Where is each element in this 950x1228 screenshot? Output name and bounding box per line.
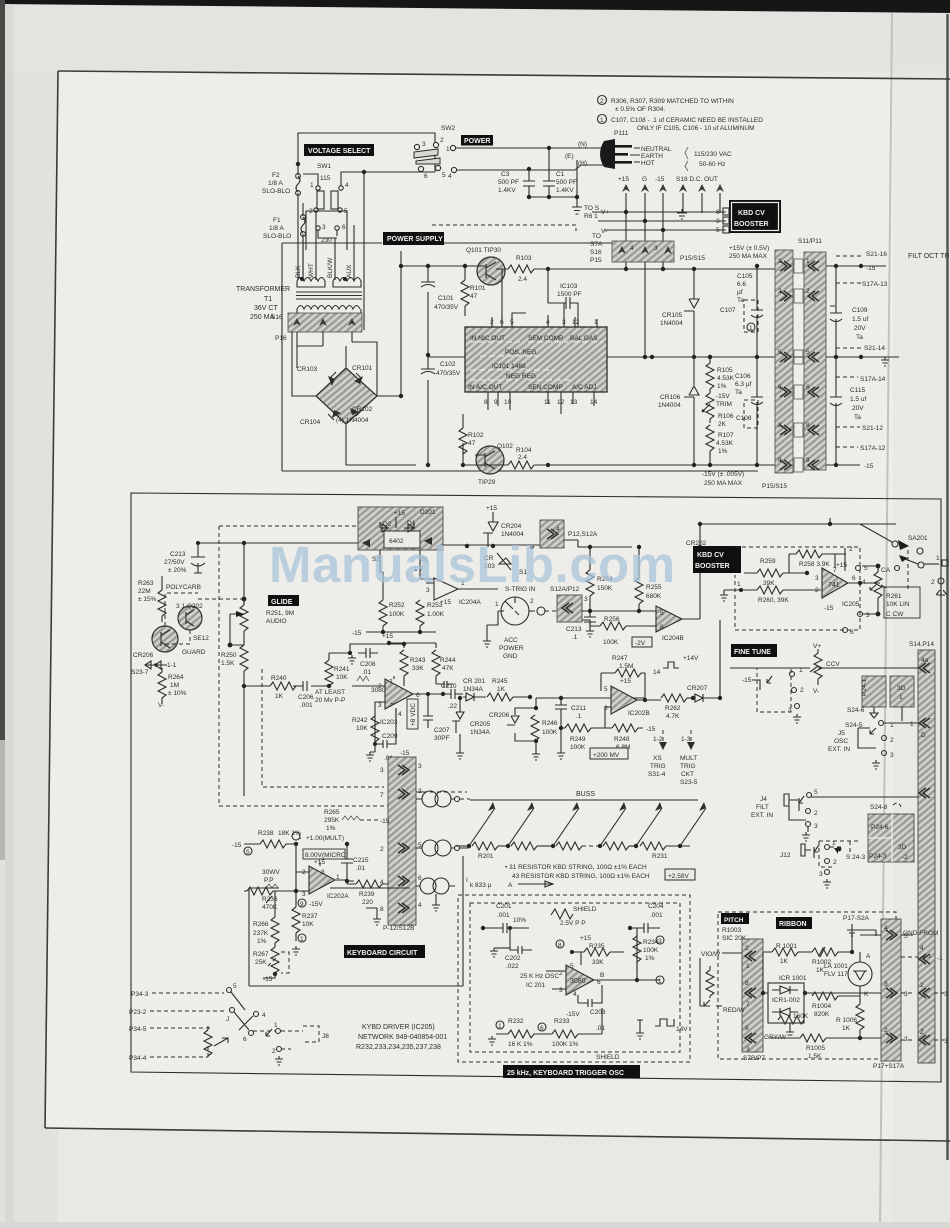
dashed lead-in bbox=[432, 225, 576, 231]
svg-text:3: 3 bbox=[559, 987, 563, 994]
wire cap commons to earth bbox=[529, 160, 577, 207]
svg-text:1.00K: 1.00K bbox=[427, 611, 445, 618]
svg-text:SEN COMP: SEN COMP bbox=[528, 384, 563, 391]
svg-text:HOT: HOT bbox=[641, 160, 655, 167]
svg-text:R251, 9M: R251, 9M bbox=[266, 610, 294, 617]
svg-text:TO S: TO S bbox=[584, 205, 600, 212]
svg-text:C101: C101 bbox=[438, 295, 454, 302]
svg-text:SEM COMP: SEM COMP bbox=[528, 335, 563, 342]
bottom band bbox=[0, 1222, 950, 1228]
svg-text:3: 3 bbox=[378, 702, 382, 709]
key contact arrows bbox=[469, 808, 706, 846]
svg-text:9: 9 bbox=[778, 457, 782, 464]
svg-text:EARTH: EARTH bbox=[641, 153, 663, 160]
svg-text:XS: XS bbox=[653, 755, 662, 762]
svg-text:6: 6 bbox=[243, 1036, 247, 1043]
svg-text:25 K Hz OSC: 25 K Hz OSC bbox=[520, 973, 559, 980]
resistor R107 4.53K 1% bbox=[706, 425, 714, 451]
svg-text:S18 D.C. OUT: S18 D.C. OUT bbox=[676, 176, 718, 183]
svg-text:R 1001: R 1001 bbox=[776, 943, 797, 950]
svg-text:R106: R106 bbox=[718, 413, 734, 420]
svg-text:SHIELD: SHIELD bbox=[573, 906, 597, 913]
capacitor C210 .22 bbox=[443, 689, 463, 699]
svg-text:4.53K: 4.53K bbox=[716, 440, 734, 447]
svg-text:1%: 1% bbox=[717, 383, 727, 390]
label VOLTAGE SELECT bbox=[304, 144, 374, 156]
svg-text:± 10%: ± 10% bbox=[168, 690, 187, 697]
svg-text:R263: R263 bbox=[138, 580, 154, 587]
resistor R1005 1.5K bbox=[800, 1034, 826, 1042]
resistor R255 680K bbox=[635, 578, 643, 604]
label 8.00V/MICRO bbox=[303, 849, 345, 859]
svg-text:BLK/W: BLK/W bbox=[327, 257, 334, 278]
svg-text:1K: 1K bbox=[497, 686, 506, 693]
svg-text:3: 3 bbox=[418, 763, 422, 770]
resistor R248 6.8M bbox=[612, 724, 638, 732]
svg-text:C1: C1 bbox=[556, 171, 565, 178]
svg-text:1%: 1% bbox=[645, 955, 655, 962]
svg-text:TRIG: TRIG bbox=[680, 763, 696, 770]
svg-text:1.5M: 1.5M bbox=[619, 663, 633, 670]
triangle wave icon bbox=[551, 909, 573, 919]
svg-text:8: 8 bbox=[806, 422, 810, 429]
resistor R250 1.5K bbox=[240, 645, 248, 671]
svg-text:6: 6 bbox=[716, 209, 720, 216]
svg-text:.001: .001 bbox=[300, 702, 313, 709]
svg-text:S17A-13: S17A-13 bbox=[862, 281, 888, 288]
transistor Q102 bbox=[476, 446, 504, 474]
svg-text:.001: .001 bbox=[650, 912, 663, 919]
svg-text:5: 5 bbox=[716, 227, 720, 234]
ground KBD area bbox=[677, 209, 687, 219]
sheet frame bottom line bbox=[45, 1128, 950, 1141]
strip chevrons row2 bbox=[780, 291, 791, 301]
svg-text:-1: -1 bbox=[937, 955, 943, 962]
svg-text:CR204: CR204 bbox=[501, 523, 522, 530]
svg-text:CR202: CR202 bbox=[686, 540, 707, 547]
resistor R253 1.00K bbox=[416, 600, 424, 626]
svg-text:2.4: 2.4 bbox=[518, 276, 527, 283]
svg-text:Ta: Ta bbox=[854, 414, 861, 421]
svg-text:1: 1 bbox=[910, 721, 914, 728]
svg-text:-15: -15 bbox=[352, 630, 362, 637]
svg-text:F2: F2 bbox=[272, 172, 280, 179]
svg-text:SW2: SW2 bbox=[441, 125, 455, 132]
svg-text:CR206: CR206 bbox=[489, 712, 510, 719]
svg-text:TRIG: TRIG bbox=[650, 763, 666, 770]
svg-text:(4) 1N4004: (4) 1N4004 bbox=[336, 417, 369, 424]
svg-text:P34-5: P34-5 bbox=[129, 1026, 147, 1033]
svg-text:3: 3 bbox=[904, 991, 908, 998]
svg-text:R249: R249 bbox=[570, 736, 586, 743]
booster pins bbox=[723, 208, 729, 215]
resistor R237 10K bbox=[292, 907, 300, 933]
svg-text:3: 3 bbox=[654, 245, 658, 252]
diode CR204 bbox=[483, 512, 498, 547]
op-amp 741 IC205 bbox=[822, 568, 848, 598]
svg-text:3: 3 bbox=[746, 1046, 750, 1053]
svg-text:5: 5 bbox=[604, 686, 608, 693]
svg-text:VOLTAGE SELECT: VOLTAGE SELECT bbox=[308, 148, 371, 155]
connector strip top horizontal bbox=[612, 241, 674, 262]
svg-text:47: 47 bbox=[468, 440, 476, 447]
svg-text:C106: C106 bbox=[735, 373, 751, 380]
wire primary left bbox=[303, 209, 316, 280]
svg-text:Z: Z bbox=[920, 1029, 924, 1036]
svg-text:ICR 1001: ICR 1001 bbox=[779, 975, 807, 982]
label RIBBON bbox=[776, 917, 812, 929]
svg-text:C109: C109 bbox=[852, 307, 868, 314]
svg-text:S: S bbox=[944, 1038, 949, 1045]
svg-text:4.7K: 4.7K bbox=[666, 713, 680, 720]
svg-text:-15: -15 bbox=[866, 265, 876, 272]
diode CR202 bbox=[695, 549, 705, 560]
svg-text:BOOSTER: BOOSTER bbox=[695, 563, 730, 570]
svg-text:14: 14 bbox=[653, 669, 661, 676]
svg-text:POS. REG: POS. REG bbox=[505, 349, 536, 356]
svg-text:ICR1-002: ICR1-002 bbox=[772, 997, 800, 1004]
svg-text:R265: R265 bbox=[324, 809, 340, 816]
connector strip S15 vertical 1 bbox=[775, 250, 793, 473]
svg-text:C209: C209 bbox=[382, 733, 398, 740]
strip S7B/P7 bbox=[742, 939, 763, 1052]
svg-text:3080: 3080 bbox=[570, 978, 586, 985]
wire grounds bbox=[460, 734, 536, 751]
svg-text:R201: R201 bbox=[478, 853, 494, 860]
svg-text:1: 1 bbox=[806, 258, 810, 265]
svg-text:3 1 Q202: 3 1 Q202 bbox=[176, 603, 203, 610]
svg-text:1N4004: 1N4004 bbox=[658, 402, 681, 409]
wire osc out bbox=[637, 934, 660, 980]
svg-text:GND FROM: GND FROM bbox=[903, 930, 938, 937]
svg-text:POWER: POWER bbox=[499, 645, 524, 652]
label +200 MV bbox=[590, 748, 628, 759]
diode CR206b bbox=[507, 708, 536, 741]
svg-text:FILT OCT TR: FILT OCT TR bbox=[908, 253, 950, 260]
switch SW2 bars bbox=[414, 149, 438, 158]
svg-text:30WV: 30WV bbox=[262, 869, 280, 876]
svg-text:BLK: BLK bbox=[295, 265, 302, 278]
resistor R103 2.4 bbox=[508, 265, 534, 273]
transistor GUARD bbox=[152, 626, 178, 652]
svg-text:4: 4 bbox=[262, 1012, 266, 1019]
svg-text:1%: 1% bbox=[326, 825, 336, 832]
svg-text:± 20%: ± 20% bbox=[168, 567, 187, 574]
svg-text:741: 741 bbox=[828, 582, 840, 589]
capacitor C211 .1 bbox=[555, 698, 567, 717]
svg-text:P15/S15: P15/S15 bbox=[680, 255, 705, 262]
svg-text:+8 VDC: +8 VDC bbox=[410, 703, 417, 726]
svg-text:+: + bbox=[390, 701, 394, 708]
svg-text:3: 3 bbox=[302, 891, 306, 898]
label +2.58V bbox=[665, 869, 695, 880]
svg-text:39K: 39K bbox=[763, 580, 775, 587]
svg-text:CR206: CR206 bbox=[133, 652, 154, 659]
resistor R266 237K bbox=[271, 917, 279, 943]
inner box keyboard circuit bbox=[249, 856, 463, 986]
svg-text:CKT: CKT bbox=[681, 771, 694, 778]
svg-text:K: K bbox=[864, 991, 869, 998]
svg-text:IC205: IC205 bbox=[842, 601, 860, 608]
capacitor C101 bbox=[421, 266, 435, 355]
svg-text:IC202A: IC202A bbox=[327, 893, 349, 900]
svg-text:6: 6 bbox=[778, 384, 782, 391]
svg-text:GLIDE: GLIDE bbox=[271, 599, 293, 606]
svg-text:4: 4 bbox=[556, 526, 560, 533]
node junction bbox=[296, 162, 300, 166]
svg-text:S21-12: S21-12 bbox=[862, 425, 883, 432]
svg-text:6: 6 bbox=[852, 575, 856, 582]
svg-text:.01: .01 bbox=[362, 669, 371, 676]
wire guard net dashes bbox=[165, 593, 242, 652]
keyboard jacks row1 bbox=[422, 791, 438, 807]
svg-text:FLV 117: FLV 117 bbox=[824, 971, 848, 978]
right page edge dark line bbox=[946, 14, 949, 1160]
svg-text:8: 8 bbox=[778, 422, 782, 429]
svg-text:6: 6 bbox=[342, 224, 346, 231]
label FINE TUNE bbox=[731, 644, 777, 657]
svg-text:9: 9 bbox=[300, 901, 304, 908]
svg-text:CR101: CR101 bbox=[352, 365, 373, 372]
resistor R242 10K bbox=[371, 716, 379, 742]
svg-text:3: 3 bbox=[884, 981, 888, 988]
resistor R1002 1K bbox=[812, 948, 838, 956]
resistor R259 39K bbox=[757, 569, 783, 577]
svg-text:1-1: 1-1 bbox=[167, 662, 177, 669]
svg-text:T1: T1 bbox=[264, 296, 272, 303]
fuse F1 bbox=[301, 203, 305, 280]
svg-text:R259: R259 bbox=[760, 558, 776, 565]
svg-text:1N34A: 1N34A bbox=[470, 729, 491, 736]
connector boxes S24-6 bbox=[862, 676, 886, 707]
svg-text:7: 7 bbox=[380, 792, 384, 799]
label KEYBOARD CIRCUIT bbox=[344, 945, 425, 958]
svg-text:PITCH: PITCH bbox=[724, 917, 744, 924]
svg-text:4: 4 bbox=[573, 991, 577, 998]
svg-text:10K LIN: 10K LIN bbox=[886, 601, 910, 608]
svg-text:3: 3 bbox=[380, 767, 384, 774]
svg-text:-2V: -2V bbox=[635, 640, 646, 647]
svg-text:R1003: R1003 bbox=[722, 927, 742, 934]
wire mains H bbox=[457, 165, 596, 170]
svg-text:A: A bbox=[508, 882, 513, 889]
bridge rectifier CR101-104 bbox=[316, 368, 377, 424]
svg-text:V-: V- bbox=[601, 228, 607, 235]
svg-text:SE12: SE12 bbox=[193, 635, 209, 642]
svg-text:C206: C206 bbox=[298, 694, 314, 701]
svg-text:J8: J8 bbox=[322, 1033, 329, 1040]
svg-text:1: 1 bbox=[298, 834, 302, 841]
resistor R244 47K bbox=[432, 650, 440, 676]
svg-text:295K: 295K bbox=[324, 817, 340, 824]
svg-text:SLO-BLO: SLO-BLO bbox=[262, 188, 290, 195]
svg-text:1%: 1% bbox=[718, 448, 728, 455]
svg-text:R242: R242 bbox=[352, 717, 368, 724]
svg-text:820K: 820K bbox=[814, 1011, 830, 1018]
svg-text:P.P: P.P bbox=[264, 877, 274, 884]
switch contacts P34 bbox=[227, 988, 232, 993]
svg-text:POWER: POWER bbox=[464, 138, 490, 145]
svg-text:KEYBOARD CIRCUIT: KEYBOARD CIRCUIT bbox=[347, 950, 418, 957]
svg-text:470/35V: 470/35V bbox=[436, 370, 461, 377]
wire to IC202B bbox=[536, 698, 645, 750]
pins 5 and 3 circles bbox=[856, 566, 861, 571]
resistor R234 100K bbox=[633, 936, 641, 962]
svg-text:P17+S17A: P17+S17A bbox=[873, 1063, 905, 1070]
svg-text:2K: 2K bbox=[718, 421, 727, 428]
svg-text:VIO/W: VIO/W bbox=[701, 951, 721, 958]
svg-text:9: 9 bbox=[494, 399, 498, 406]
resistor R267 25K bbox=[271, 947, 279, 973]
op-amp IC203 3080 bbox=[385, 679, 413, 709]
svg-text:5: 5 bbox=[246, 849, 250, 856]
svg-text:+15: +15 bbox=[394, 510, 405, 517]
module D201 6402 bbox=[358, 507, 443, 550]
label POWER SUPPLY bbox=[383, 232, 444, 245]
svg-text:FINE TUNE: FINE TUNE bbox=[734, 649, 771, 656]
svg-text:S31-4: S31-4 bbox=[648, 771, 666, 778]
svg-text:(H): (H) bbox=[578, 160, 587, 167]
op-amp IC201 3080 bbox=[566, 965, 594, 995]
svg-text:1: 1 bbox=[274, 1022, 278, 1029]
svg-text:S 24-3: S 24-3 bbox=[846, 854, 866, 861]
svg-text:WHT: WHT bbox=[308, 263, 315, 278]
svg-text:S: S bbox=[944, 991, 949, 998]
label PITCH bbox=[721, 913, 749, 924]
svg-text:C201: C201 bbox=[496, 903, 512, 910]
strip chevrons row3 bbox=[780, 352, 791, 362]
sheet frame top line bbox=[58, 71, 950, 79]
svg-text:20V: 20V bbox=[852, 405, 864, 412]
svg-text:4.53K: 4.53K bbox=[717, 375, 735, 382]
svg-text:S24-6: S24-6 bbox=[847, 707, 865, 714]
svg-text:3D: 3D bbox=[897, 685, 906, 692]
svg-text:CR106: CR106 bbox=[660, 394, 681, 401]
svg-text:3: 3 bbox=[658, 938, 662, 945]
capacitor C1 bbox=[543, 148, 555, 197]
trimmer R106 2K bbox=[706, 393, 714, 419]
svg-text:Q101 TIP30: Q101 TIP30 bbox=[466, 247, 501, 254]
wire booster top rail bbox=[700, 518, 896, 547]
svg-text:2: 2 bbox=[800, 687, 804, 694]
svg-text:250 MA MAX: 250 MA MAX bbox=[704, 480, 743, 487]
svg-text:1.5 uf: 1.5 uf bbox=[852, 316, 868, 323]
svg-text:P111: P111 bbox=[614, 130, 629, 137]
svg-text:-15: -15 bbox=[380, 818, 390, 825]
svg-text:ONLY IF C105, C106 - 10 uf ALU: ONLY IF C105, C106 - 10 uf ALUMINUM bbox=[637, 125, 755, 132]
svg-text:GUARD: GUARD bbox=[182, 649, 206, 656]
resistor R256 100K bbox=[600, 622, 626, 630]
svg-text:2: 2 bbox=[920, 982, 924, 989]
switch SW1 115 contacts bbox=[317, 191, 324, 209]
svg-text:C3: C3 bbox=[501, 171, 510, 178]
svg-text:1K: 1K bbox=[842, 1025, 851, 1032]
svg-text:2: 2 bbox=[778, 288, 782, 295]
svg-text:115/230 VAC: 115/230 VAC bbox=[694, 151, 732, 158]
trig arrows bbox=[663, 730, 691, 744]
transformer secondary coil bbox=[297, 306, 361, 314]
capacitor C106 bbox=[751, 357, 763, 465]
svg-text:POWER SUPPLY: POWER SUPPLY bbox=[387, 236, 443, 243]
svg-text:10%: 10% bbox=[513, 917, 526, 924]
wire input row IC204B bbox=[582, 611, 656, 626]
svg-text:P17-S2A: P17-S2A bbox=[843, 915, 870, 922]
svg-text:6.3 µf: 6.3 µf bbox=[735, 381, 752, 388]
svg-text:FILT: FILT bbox=[756, 804, 769, 811]
resistor R1006 1K bbox=[856, 1004, 864, 1030]
resistor R236 470K pot bbox=[247, 887, 273, 895]
svg-text:EXT. IN: EXT. IN bbox=[828, 746, 850, 753]
resistor R240 1K bbox=[270, 682, 296, 690]
connector strip S16/P16 bbox=[288, 313, 362, 332]
svg-text:10K: 10K bbox=[336, 674, 348, 681]
svg-text:S23-7: S23-7 bbox=[131, 669, 149, 676]
svg-text:1: 1 bbox=[600, 117, 604, 124]
svg-text:C107: C107 bbox=[720, 307, 736, 314]
fuse F2 bbox=[296, 164, 300, 280]
jack J8 bbox=[303, 1026, 319, 1042]
svg-text:+15: +15 bbox=[836, 562, 847, 569]
svg-text:Ta: Ta bbox=[856, 334, 863, 341]
svg-text:R233: R233 bbox=[554, 1018, 570, 1025]
capacitor C208 .01 bbox=[358, 648, 378, 658]
sheet frame left line bbox=[45, 71, 58, 1128]
svg-text:1M: 1M bbox=[170, 682, 179, 689]
transistor Q101 bbox=[477, 257, 505, 285]
svg-text:J: J bbox=[226, 1016, 229, 1023]
svg-text:NEUTRAL: NEUTRAL bbox=[641, 146, 672, 153]
diode CR207 bbox=[695, 694, 703, 702]
svg-text:2: 2 bbox=[600, 98, 604, 105]
svg-text:10K: 10K bbox=[302, 921, 314, 928]
svg-text:µf: µf bbox=[737, 289, 743, 296]
svg-text:NETWORK 949-040854-001: NETWORK 949-040854-001 bbox=[358, 1034, 447, 1041]
svg-text:IC 201: IC 201 bbox=[526, 982, 546, 989]
svg-text:2: 2 bbox=[380, 846, 384, 853]
resistor R264 1M bbox=[158, 672, 166, 698]
svg-text:C213: C213 bbox=[566, 626, 582, 633]
svg-text:2: 2 bbox=[272, 1048, 276, 1055]
svg-text:500 PF: 500 PF bbox=[498, 179, 519, 186]
svg-text:+14V: +14V bbox=[683, 655, 699, 662]
svg-text:+15: +15 bbox=[618, 176, 629, 183]
svg-text:J4: J4 bbox=[760, 796, 767, 803]
svg-text:30PF: 30PF bbox=[434, 735, 450, 742]
svg-text:R1005: R1005 bbox=[806, 1045, 826, 1052]
svg-text:.001: .001 bbox=[497, 912, 510, 919]
svg-text:Ta: Ta bbox=[735, 389, 742, 396]
svg-text:+15: +15 bbox=[382, 633, 393, 640]
svg-text:1-3: 1-3 bbox=[681, 736, 691, 743]
svg-text:3: 3 bbox=[890, 752, 894, 759]
svg-text:(N): (N) bbox=[578, 141, 587, 148]
resistor R243 33K bbox=[400, 650, 408, 676]
svg-text:P24-3: P24-3 bbox=[869, 853, 887, 860]
wire SW1 to transformer bbox=[303, 172, 435, 330]
resistor ribbon left bbox=[706, 970, 714, 996]
svg-text:2: 2 bbox=[814, 810, 818, 817]
svg-text:R232,233,234,235,237,238: R232,233,234,235,237,238 bbox=[356, 1044, 441, 1051]
svg-text:V+: V+ bbox=[813, 643, 821, 650]
svg-text:47: 47 bbox=[470, 293, 478, 300]
svg-text:100K: 100K bbox=[570, 744, 586, 751]
svg-text:B: B bbox=[600, 972, 604, 979]
wire right of strips row6 bbox=[826, 464, 860, 466]
svg-text:TO: TO bbox=[592, 233, 601, 240]
svg-text:Ta: Ta bbox=[737, 297, 744, 304]
resistor R1001 1K bbox=[772, 948, 798, 956]
darker margin above sheet bbox=[0, 0, 950, 71]
